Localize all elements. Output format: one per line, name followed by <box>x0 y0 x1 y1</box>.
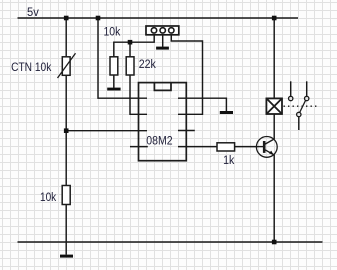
wire 10k bottom to ground <box>65 205 67 255</box>
switch S1 contacts <box>289 96 309 116</box>
node E: ADC tap junction <box>64 128 69 133</box>
wire 1k to transistor base <box>235 146 259 148</box>
IC pin8 to ground <box>178 98 226 111</box>
wire relay coil to collector <box>273 114 275 139</box>
transistor Q1 <box>256 137 277 158</box>
wire 5V to IC pin1 <box>98 18 147 98</box>
svg-text:5v: 5v <box>27 5 39 19</box>
wire thermistor top <box>65 18 67 57</box>
op-amp U1: IC 08M2 body <box>139 83 187 161</box>
resistor 1k <box>217 143 235 151</box>
resistor 22k <box>126 57 134 75</box>
wire 5V to relay coil <box>273 18 275 99</box>
switch lever <box>300 100 306 112</box>
wire ADC tap to IC pin <box>66 130 147 132</box>
svg-text:10k: 10k <box>40 192 56 204</box>
ground under 10k <box>107 88 120 91</box>
wire switch NC stub <box>306 81 308 96</box>
IC pin6 stub <box>178 130 195 132</box>
IC pin4 stub <box>130 146 148 148</box>
wire emitter to 0V rail <box>273 155 275 242</box>
wire switch NO stub <box>290 81 292 96</box>
wire header right pin to IC pin7 <box>171 35 202 115</box>
svg-text:08M2: 08M2 <box>146 133 173 147</box>
relay K1 coil box <box>266 98 282 114</box>
ground bottom left <box>60 255 73 258</box>
wire 5V top rail <box>18 17 299 19</box>
node F: emitter/0V junction <box>272 240 277 245</box>
node A: 5V/thermistor junction <box>64 16 69 21</box>
svg-text:22k: 22k <box>139 59 156 71</box>
resistor 10k lower <box>62 186 70 205</box>
svg-text:CTN 10k: CTN 10k <box>11 60 52 74</box>
wire 22k vertical to IC pin2 <box>130 42 147 114</box>
wire switch common stub <box>298 117 300 130</box>
wire serial link horizontal <box>114 35 154 57</box>
thermistor CTN 10k <box>58 53 76 78</box>
node B: 5V/IC pin1 junction <box>96 16 101 21</box>
wire header gnd pin stub <box>162 35 164 47</box>
node D: 22k/serial junction <box>128 40 133 45</box>
wire dotted relay link <box>284 105 319 107</box>
ground under connector <box>156 47 169 50</box>
node C: 5V/relay junction <box>272 16 277 21</box>
resistor 10k (serial pulldown) <box>110 57 118 75</box>
svg-text:10k: 10k <box>104 26 121 38</box>
svg-text:1k: 1k <box>223 155 234 167</box>
ground right of IC <box>220 111 233 114</box>
wire 10k pullup bottom stub <box>113 75 115 88</box>
connector J1 programming header <box>146 26 179 35</box>
wire thermistor bottom to R divider <box>65 75 67 186</box>
IC pin5 to 1k <box>178 146 217 148</box>
wire 0V bottom rail <box>18 241 323 243</box>
